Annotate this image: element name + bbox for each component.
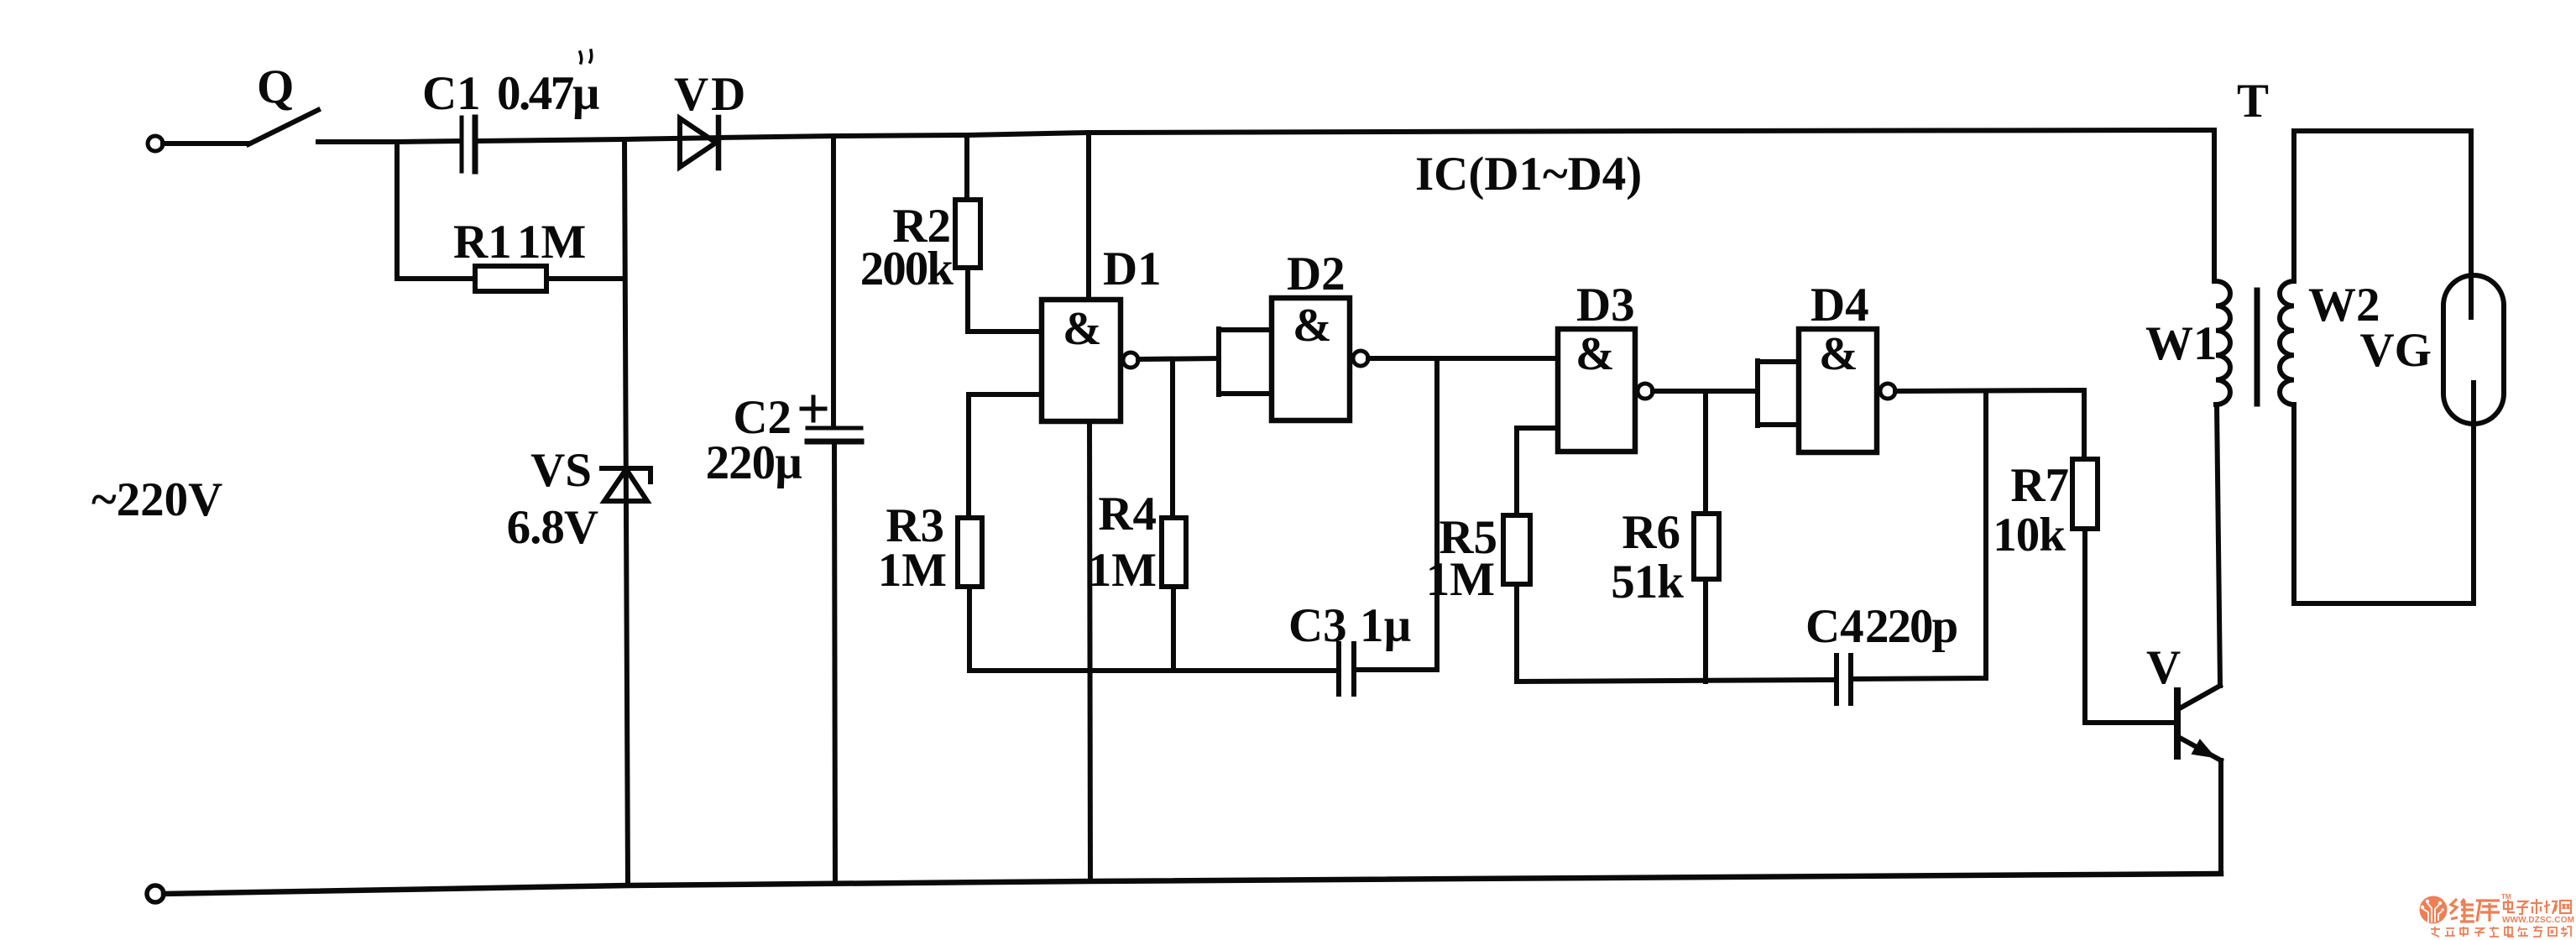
wire D1 ground pin down to bottom rail [1089, 421, 1090, 881]
svg-text:~220V: ~220V [91, 473, 222, 526]
wire D1 input2 from R3 [969, 394, 1042, 518]
terminal top-left [148, 136, 163, 151]
transistor V [2177, 686, 2221, 760]
svg-text:0.47µ: 0.47µ [497, 67, 599, 120]
svg-text:VS: VS [530, 444, 592, 497]
svg-text:1µ: 1µ [1360, 599, 1411, 652]
svg-text:WWW.DZSC.COM: WWW.DZSC.COM [2502, 916, 2574, 925]
switch Q blade [248, 110, 318, 144]
svg-text:&: & [1575, 328, 1615, 380]
transformer core [2255, 290, 2260, 404]
capacitor C1 [462, 117, 475, 171]
lamp VG envelope [2443, 275, 2504, 424]
winding W2 [2280, 281, 2294, 405]
node junction above R1 left [394, 142, 400, 279]
resistor R1 [397, 266, 624, 291]
wire switch to C1 [318, 141, 459, 142]
capacitor C4 [1837, 655, 1851, 703]
resistor R4 [1162, 518, 1186, 671]
svg-text:VD: VD [674, 68, 748, 121]
NAND gate D3 [1558, 329, 1653, 452]
capacitor C3 [1339, 644, 1354, 694]
node junction to R4 [1170, 359, 1175, 518]
bottom rail [164, 874, 2221, 894]
svg-text:W1: W1 [2145, 317, 2218, 370]
resistor R6 [1694, 514, 1719, 681]
svg-text:1M: 1M [517, 216, 586, 269]
svg-text:D4: D4 [1811, 279, 1869, 332]
svg-text:V: V [2146, 641, 2181, 694]
svg-text:D2: D2 [1287, 248, 1345, 300]
svg-text:C1: C1 [422, 67, 481, 120]
ink artifact top center [580, 50, 592, 63]
svg-text:C4: C4 [1805, 600, 1864, 653]
svg-text:R7: R7 [2010, 459, 2069, 512]
svg-text:D1: D1 [1103, 243, 1162, 295]
resistor R2 [955, 135, 1042, 332]
input bracket of D4 [1758, 361, 1799, 426]
transformer T primary lead [2212, 130, 2217, 281]
wire collector up to W1 [2217, 405, 2220, 686]
zener diode VS [602, 468, 651, 501]
svg-text:200k: 200k [860, 243, 954, 295]
watermark slogan [2431, 926, 2571, 937]
winding W1 [2216, 281, 2230, 405]
svg-text:1M: 1M [878, 544, 947, 597]
svg-text:C3: C3 [1288, 599, 1347, 652]
capacitor C2 [807, 136, 861, 883]
svg-text:Q: Q [257, 60, 294, 113]
svg-text:D3: D3 [1576, 279, 1635, 332]
wire R5 bottom to C4 [1517, 680, 1834, 681]
watermark text dianzishichangwang [2504, 899, 2571, 914]
svg-text:&: & [1063, 303, 1102, 355]
NAND gate D2 [1272, 298, 1368, 420]
wire emitter down to bottom rail [2218, 760, 2223, 874]
svg-text:1M: 1M [1426, 553, 1495, 606]
svg-text:TM: TM [2501, 893, 2511, 901]
wire D3 input2 from R5 [1517, 428, 1558, 515]
wire D3 output to D4 [1653, 389, 1758, 394]
wire W2 top lead to lamp [2294, 131, 2471, 317]
svg-text:6.8V: 6.8V [507, 501, 598, 554]
svg-text:&: & [1293, 300, 1332, 352]
wire W2 bottom lead to lamp bottom [2294, 383, 2474, 603]
svg-text:IC(D1~D4): IC(D1~D4) [1415, 148, 1642, 201]
wire VD to transformer corner (top rail) [718, 130, 2214, 138]
node junction to R6 [1703, 391, 1708, 514]
svg-text:R4: R4 [1098, 488, 1157, 540]
svg-text:&: & [1819, 328, 1858, 380]
plus sign of C2 [802, 397, 825, 420]
svg-text:T: T [2237, 75, 2269, 128]
resistor R7 [2072, 459, 2176, 723]
watermark text weiku [2450, 899, 2500, 922]
terminal bottom-left [147, 885, 164, 902]
wire C1 to VD [478, 138, 721, 141]
svg-text:R6: R6 [1622, 506, 1680, 559]
resistor R3 [958, 518, 982, 671]
svg-text:R1: R1 [453, 216, 512, 269]
wire C4 right up to D4 output line [1853, 391, 1986, 679]
input bracket of D2 [1219, 329, 1272, 394]
NAND gate D1 [1042, 133, 1138, 421]
diode VD [680, 117, 718, 168]
wire top terminal to switch [163, 141, 248, 146]
NAND gate D4 [1799, 329, 1895, 452]
svg-text:VG: VG [2360, 324, 2432, 377]
svg-text:220p: 220p [1865, 600, 1957, 653]
resistor R5 [1503, 515, 1530, 681]
wire D2 output to D3 input [1368, 356, 1558, 361]
wire feedback line to C3 [969, 668, 1336, 673]
wire D1 output to D2 [1138, 358, 1219, 359]
svg-text:220µ: 220µ [706, 436, 802, 489]
svg-text:51k: 51k [1611, 556, 1684, 608]
svg-text:1M: 1M [1088, 544, 1157, 597]
wire C3 right plate up to D2 output line [1356, 358, 1437, 670]
wire D4 output to R7 [1895, 390, 2084, 459]
svg-text:10k: 10k [1993, 509, 2066, 561]
watermark logo circle [2420, 896, 2448, 924]
wire VS branch vertical [624, 139, 628, 885]
